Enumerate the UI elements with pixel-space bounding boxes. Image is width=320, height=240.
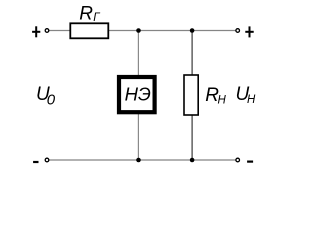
resistor RH (vertical load resistor box) [184, 75, 198, 115]
wire: vertical wire through NE element [137, 31, 139, 161]
svg-text:Н: Н [247, 94, 256, 106]
node: junction dot bottom at RH [190, 158, 195, 163]
terminal + (top-left) [32, 26, 49, 37]
svg-text:0: 0 [47, 92, 56, 109]
wire: top left segment from + terminal to Rg [49, 30, 70, 32]
node: junction dot top at RH [190, 28, 195, 33]
nonlinear element NE (thick box U1) [119, 77, 155, 112]
node: junction dot top at NE [136, 28, 141, 33]
svg-text:НЭ: НЭ [125, 84, 151, 105]
terminal - (bottom-left) [33, 158, 49, 163]
wire: top segment from Rg to right + terminal [109, 30, 237, 32]
terminal - (bottom-right) [236, 158, 253, 163]
label UH (load voltage) [236, 84, 257, 106]
label RH value [205, 85, 226, 106]
wire: vertical lead of load resistor RH [191, 31, 193, 161]
terminal + (top-right) [236, 26, 254, 37]
label U0 (source voltage) [36, 84, 56, 109]
svg-text:R: R [79, 3, 93, 24]
resistor RG (series source resistance, horizontal box) [70, 23, 108, 38]
svg-text:Н: Н [218, 94, 227, 106]
label RG value [79, 3, 100, 24]
svg-text:Г: Г [93, 12, 100, 24]
node: junction dot bottom at NE [136, 158, 141, 163]
wire: bottom segment from - terminal to right - terminal [49, 159, 236, 161]
